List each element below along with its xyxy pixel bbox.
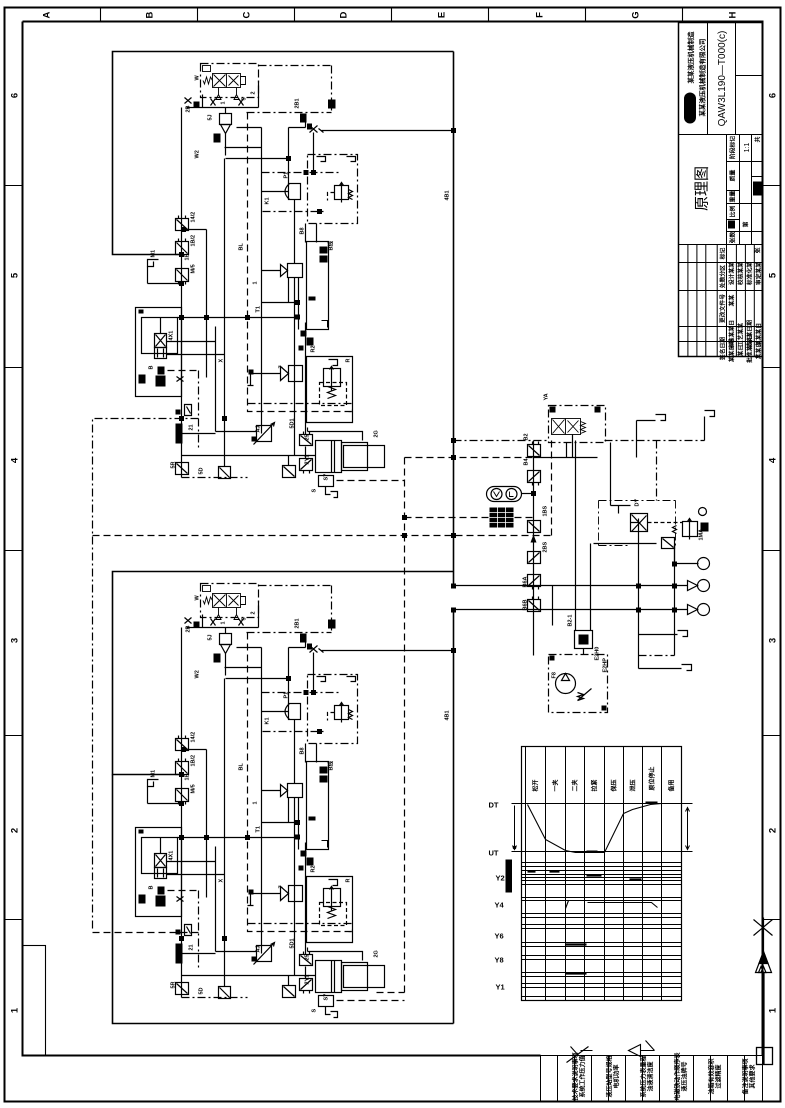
Y2 thick marks [528, 872, 642, 880]
svg-text:F: F [535, 12, 546, 18]
Y2 rows dense [522, 863, 682, 885]
svg-text:重量: 重量 [729, 191, 737, 203]
dashed pump link y517 [405, 517, 534, 519]
svg-text:原位停止: 原位停止 [648, 766, 656, 790]
svg-text:6: 6 [10, 93, 21, 98]
valve outlet wires [567, 435, 573, 458]
svg-text:其他要求: 其他要求 [749, 1064, 757, 1089]
title scale/qty cell grid [727, 135, 763, 245]
filter circle 2 [698, 580, 710, 592]
zone divider ticks left band [5, 186, 23, 920]
inline valve p1 [528, 442, 541, 457]
svg-text:更改文件号: 更改文件号 [719, 294, 727, 323]
junction x453 y585 [451, 584, 456, 589]
svg-text:Y6: Y6 [495, 932, 504, 941]
X mark above arrow [754, 918, 773, 952]
Y4 curve segment [566, 901, 658, 909]
svg-text:泄压: 泄压 [629, 779, 637, 791]
svg-text:DY: DY [635, 499, 641, 507]
svg-text:质量: 质量 [729, 170, 737, 182]
svg-text:校核某某: 校核某某 [737, 262, 745, 285]
frame attached box [23, 946, 46, 1056]
svg-text:某某液压机械制造: 某某液压机械制造 [686, 31, 695, 84]
pump P circle [556, 674, 576, 694]
stage mark cells small text [729, 136, 762, 254]
pump vertical bus x533 [533, 441, 535, 656]
svg-text:1BS: 1BS [543, 505, 549, 516]
tank hooks right [639, 631, 688, 637]
svg-text:4: 4 [768, 457, 779, 463]
svg-text:B2: B2 [524, 433, 530, 440]
svg-text:液压油牌号: 液压油牌号 [681, 1061, 689, 1091]
inline valve p5 [528, 575, 541, 590]
pilot dash-dot right x656 [605, 441, 705, 501]
return main y609 [454, 609, 688, 611]
break symbol [567, 1047, 593, 1063]
dash-dot bottom y655 [639, 655, 675, 657]
dashed mid line y535 [93, 441, 552, 536]
svg-text:B4: B4 [524, 458, 530, 466]
svg-text:过滤精度: 过滤精度 [715, 1064, 723, 1089]
svg-text:5: 5 [768, 272, 779, 278]
curve thick marks [587, 803, 658, 852]
zone divider ticks right band [763, 186, 781, 920]
inline valve p4 [528, 552, 541, 564]
filter glyph top [662, 538, 675, 549]
Y4 rows [522, 898, 682, 918]
svg-text:2: 2 [10, 828, 21, 833]
pilot DY dash-dot subbox [599, 501, 676, 546]
svg-text:Y8: Y8 [495, 956, 504, 965]
misc wires pump [611, 443, 639, 523]
tank hook pump top a [637, 415, 666, 458]
svg-text:某某日: 某某日 [755, 342, 763, 359]
pump vertical bus x575 [575, 441, 577, 631]
svg-text:松开: 松开 [532, 779, 540, 791]
pressure gauge pair [487, 487, 522, 502]
svg-text:F8: F8 [552, 672, 558, 678]
pump corner marks [550, 656, 555, 661]
svg-text:某某某日期: 某某某日期 [746, 320, 754, 349]
svg-text:油箱有效容积: 油箱有效容积 [708, 1058, 716, 1094]
svg-text:2: 2 [768, 828, 779, 833]
svg-text:DT: DT [489, 801, 499, 810]
Y8 thick mark [566, 972, 587, 974]
dimension line left [513, 806, 517, 850]
svg-text:电磁铁动作顺序表: 电磁铁动作顺序表 [674, 1052, 682, 1101]
legend strip box [541, 1056, 763, 1102]
dimension dot [513, 846, 517, 850]
unloading valve dash-dot enclosure [549, 406, 606, 443]
svg-text:Y2: Y2 [496, 874, 505, 883]
hydraulic circuit block 1 [113, 52, 457, 498]
svg-text:B6A: B6A [523, 576, 529, 587]
legend dense texts [572, 1052, 757, 1101]
svg-text:张: 张 [754, 247, 762, 253]
UT level line [512, 851, 693, 853]
svg-text:第: 第 [742, 221, 750, 227]
svg-text:拉紧: 拉紧 [591, 779, 599, 791]
legend cell dividers [558, 1056, 745, 1102]
pump dash-dot enclosure F8 [549, 655, 608, 713]
svg-text:YA: YA [544, 393, 550, 400]
inline valve p3 [528, 521, 541, 533]
main bus vertical x453 lower [453, 611, 455, 1024]
corner cross box [757, 1048, 773, 1065]
svg-text:5: 5 [10, 272, 21, 278]
svg-text:一夹: 一夹 [552, 779, 560, 791]
chart row labels [489, 801, 505, 992]
DT level line [512, 803, 693, 805]
svg-text:G: G [631, 11, 642, 18]
unloading valve spring [581, 422, 586, 434]
svg-text:6: 6 [768, 93, 779, 98]
dash-dot manifold left edge x92 [93, 419, 199, 931]
Y1 rows [522, 984, 682, 997]
svg-text:备用: 备用 [668, 779, 676, 792]
zone numbers left band (rotated) [10, 93, 21, 1013]
pilot valve box DY [631, 514, 648, 532]
svg-text:备注说明事项: 备注说明事项 [742, 1058, 750, 1095]
dashed manifold bottom y932 [93, 932, 199, 934]
svg-text:E2H0: E2H0 [595, 647, 601, 661]
svg-text:处数分区: 处数分区 [719, 265, 727, 289]
pilot circle [699, 508, 707, 516]
hydraulic circuit block 2 [113, 572, 457, 1018]
svg-text:设计某某: 设计某某 [728, 262, 736, 285]
main bus vertical x453 upper [453, 52, 455, 586]
svg-text:B: B [145, 11, 156, 18]
svg-text:3: 3 [768, 638, 779, 643]
Y8 rows [522, 956, 682, 977]
tank hook pump top b [705, 411, 715, 441]
svg-text:E: E [437, 12, 448, 18]
circuit2 bottom edge [113, 775, 454, 1024]
svg-text:B6B: B6B [523, 599, 529, 610]
filter feed line top [594, 544, 699, 564]
svg-text:UT: UT [489, 849, 499, 858]
svg-text:1: 1 [10, 1007, 21, 1013]
svg-text:标记: 标记 [719, 248, 727, 261]
svg-text:共: 共 [754, 136, 762, 142]
svg-text:A: A [42, 11, 53, 18]
junction dot pump [531, 491, 536, 496]
small arrow symbol [629, 1041, 655, 1057]
svg-text:某某: 某某 [728, 295, 736, 307]
pressure main y585 [454, 585, 688, 587]
svg-text:审定某某: 审定某某 [755, 262, 763, 285]
svg-text:1:1: 1:1 [744, 143, 751, 153]
pump mid verticals [553, 544, 591, 626]
inline valve p6 [528, 597, 541, 612]
pump spring [578, 689, 592, 701]
svg-text:B2-1: B2-1 [568, 615, 574, 627]
svg-text:3: 3 [10, 638, 21, 643]
svg-text:液压站型号规格: 液压站型号规格 [606, 1055, 614, 1098]
svg-text:H: H [728, 11, 739, 18]
dash-dot pilot main y439 [454, 440, 549, 442]
svg-text:二夹: 二夹 [571, 779, 579, 791]
title block outline [679, 23, 763, 357]
company name text column [686, 31, 707, 117]
stage small blob [728, 221, 735, 229]
svg-text:工艺某某: 工艺某某 [737, 323, 745, 346]
zone divider ticks top band [101, 8, 683, 22]
junction dots bus [402, 533, 407, 538]
svg-text:1MA: 1MA [699, 529, 705, 541]
svg-text:张数: 张数 [729, 232, 737, 244]
svg-text:QAW3L190—T000(c): QAW3L190—T000(c) [717, 31, 728, 127]
svg-text:比例: 比例 [729, 206, 737, 218]
gauge label plate [490, 508, 514, 528]
chart header texts [532, 766, 676, 792]
flow direction arrow [754, 918, 773, 1065]
dashed drain x404 [377, 458, 405, 993]
svg-text:某日: 某日 [737, 345, 745, 357]
displacement curve [528, 804, 662, 853]
svg-text:1: 1 [768, 1007, 779, 1013]
revision header dark column texts [719, 248, 763, 363]
up arrow on dashed [531, 535, 537, 543]
svg-text:E2HP: E2HP [603, 658, 609, 673]
company logo blob [684, 93, 696, 124]
filter circle 3 [698, 604, 710, 616]
Y6 rows [522, 925, 682, 947]
relief valve right [683, 522, 698, 537]
Y6 thick mark [566, 943, 587, 945]
svg-text:技术要求说明事项: 技术要求说明事项 [572, 1052, 580, 1100]
pressure line y457 [534, 457, 598, 459]
inline valve p2 [528, 471, 541, 486]
svg-text:2BS: 2BS [543, 541, 549, 552]
svg-text:某某日期: 某某日期 [728, 339, 736, 362]
svg-text:系统工作压力值: 系统工作压力值 [579, 1055, 587, 1097]
svg-text:系统压力表量程: 系统压力表量程 [640, 1055, 648, 1097]
chart outer box [522, 747, 682, 1001]
svg-text:电机功率: 电机功率 [613, 1064, 621, 1088]
chart column lines [526, 747, 662, 1001]
motor block M [575, 631, 593, 649]
stage mark dark cell [753, 182, 762, 196]
corner marks [550, 407, 556, 413]
pump labels [523, 393, 705, 678]
zone numbers right band (rotated) [768, 93, 779, 1013]
svg-text:D: D [339, 11, 350, 18]
svg-text:保压: 保压 [610, 779, 618, 792]
Y2 label blob [506, 860, 513, 893]
revision table grid [679, 245, 763, 357]
svg-text:阶段标记: 阶段标记 [729, 136, 737, 159]
drain vertical x674 [674, 546, 676, 656]
title block main dividers [679, 23, 763, 245]
filter circle 1 [698, 558, 710, 570]
zone letters A-H top band (rotated) [42, 11, 739, 18]
svg-text:Y1: Y1 [496, 983, 505, 992]
svg-text:油液清洁度: 油液清洁度 [647, 1061, 655, 1092]
unloading valve body [552, 419, 581, 435]
svg-text:4: 4 [10, 457, 21, 463]
svg-text:原理图: 原理图 [694, 166, 711, 211]
svg-text:Y4: Y4 [495, 901, 505, 910]
svg-text:某某液压机械制造有限公司: 某某液压机械制造有限公司 [698, 39, 707, 117]
svg-text:标准化某: 标准化某 [746, 262, 754, 286]
svg-text:签名日期: 签名日期 [719, 337, 727, 361]
dimension line right [686, 808, 690, 850]
svg-text:C: C [242, 11, 253, 18]
